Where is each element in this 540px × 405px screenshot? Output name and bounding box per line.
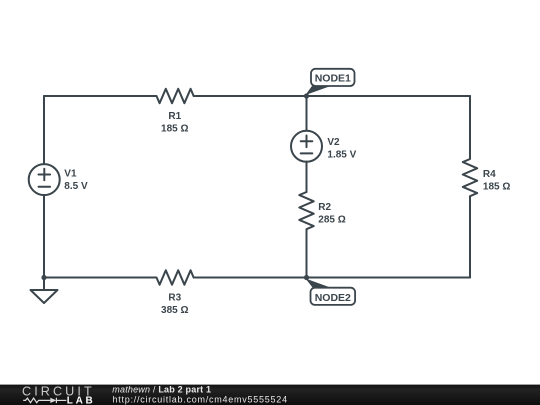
- svg-text:http://circuitlab.com/cm4emv55: http://circuitlab.com/cm4emv5555524: [113, 394, 288, 404]
- svg-text:R3: R3: [168, 292, 181, 303]
- svg-text:mathewn / Lab 2 part 1: mathewn / Lab 2 part 1: [112, 385, 211, 395]
- svg-text:V1: V1: [64, 169, 77, 180]
- svg-text:V2: V2: [327, 137, 340, 148]
- svg-text:185 Ω: 185 Ω: [161, 123, 188, 134]
- svg-text:R4: R4: [483, 169, 496, 180]
- svg-text:385 Ω: 385 Ω: [161, 305, 188, 316]
- svg-text:285 Ω: 285 Ω: [318, 214, 345, 225]
- svg-text:NODE1: NODE1: [315, 73, 351, 85]
- svg-text:NODE2: NODE2: [315, 292, 351, 304]
- svg-text:8.5 V: 8.5 V: [64, 181, 88, 192]
- svg-text:1.85 V: 1.85 V: [327, 149, 356, 160]
- svg-text:LAB: LAB: [67, 395, 96, 405]
- svg-text:R2: R2: [318, 202, 331, 213]
- svg-text:R1: R1: [168, 111, 181, 122]
- svg-text:185 Ω: 185 Ω: [483, 181, 510, 192]
